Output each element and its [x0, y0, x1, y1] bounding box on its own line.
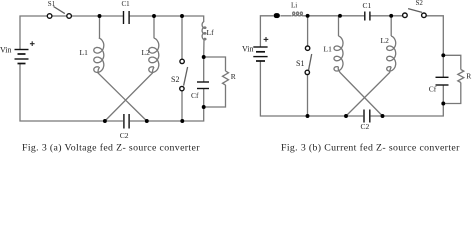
svg-text:S1: S1: [48, 0, 56, 8]
svg-text:C1: C1: [122, 0, 131, 8]
svg-text:Vin: Vin: [242, 45, 254, 54]
svg-text:Vin: Vin: [0, 46, 12, 55]
svg-text:R: R: [231, 72, 236, 81]
svg-text:L1: L1: [80, 48, 89, 57]
svg-text:L1: L1: [324, 45, 333, 54]
svg-text:L2: L2: [142, 48, 151, 57]
svg-text:Cf: Cf: [429, 85, 437, 94]
svg-text:Fig. 3 (b) Current fed Z- sour: Fig. 3 (b) Current fed Z- source convert…: [281, 142, 460, 153]
svg-text:Fig. 3 (a) Voltage fed Z- sour: Fig. 3 (a) Voltage fed Z- source convert…: [22, 142, 200, 153]
svg-text:Li: Li: [291, 2, 297, 10]
svg-text:R: R: [466, 72, 471, 81]
svg-text:S2: S2: [171, 75, 179, 84]
svg-text:Cf: Cf: [191, 91, 199, 100]
svg-text:C2: C2: [120, 131, 129, 140]
svg-text:S1: S1: [296, 59, 304, 68]
svg-text:C1: C1: [363, 1, 372, 10]
svg-text:S2: S2: [416, 0, 424, 7]
svg-text:C2: C2: [361, 122, 370, 131]
svg-text:L2: L2: [381, 36, 390, 45]
svg-text:Lf: Lf: [207, 28, 215, 37]
